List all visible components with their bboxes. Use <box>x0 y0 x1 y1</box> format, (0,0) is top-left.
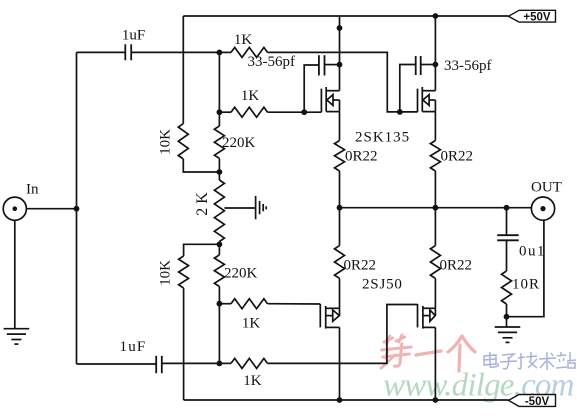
wire C4 right lead <box>421 64 436 66</box>
node B gate node upper <box>217 109 223 115</box>
node Q3 rail <box>337 397 343 403</box>
resistor R3 10K top <box>178 124 188 159</box>
connector J2 OUT <box>531 197 554 220</box>
wire 2K bottom to R4 <box>184 244 220 256</box>
svg-text:2SJ50: 2SJ50 <box>362 277 403 293</box>
svg-text:1K: 1K <box>243 373 262 389</box>
node M out right <box>504 205 510 211</box>
node A <box>217 50 223 56</box>
capacitor C5 0u1 <box>497 235 519 240</box>
connector J1 In <box>3 197 26 220</box>
wire node B down <box>218 112 220 126</box>
label 1K R8 <box>242 315 261 331</box>
resistor R11 0R22 <box>430 141 440 172</box>
resistor R2 1K second <box>219 107 267 117</box>
node N zobel gnd <box>504 314 510 320</box>
wire Q4 drain to rail <box>434 327 436 400</box>
svg-text:220K: 220K <box>222 135 256 151</box>
label 10K bottom <box>158 260 174 286</box>
svg-text:+50V: +50V <box>523 12 551 24</box>
wire 2K tap <box>224 207 255 209</box>
wire R10 to out rail <box>339 171 341 208</box>
svg-text:0u1: 0u1 <box>519 244 546 260</box>
resistor R12 0R22 lower <box>335 246 345 279</box>
svg-text:2K: 2K <box>194 188 211 216</box>
ground mid sideways <box>256 196 267 219</box>
wire R1 to Q2 gate <box>268 52 400 112</box>
svg-text:10K: 10K <box>158 260 174 286</box>
label 1K R9 <box>243 373 262 389</box>
node drain dot Q1 <box>337 25 343 31</box>
label In <box>26 182 39 198</box>
transistor Q3 2SJ50 <box>320 304 339 329</box>
node D 2K bottom <box>217 241 223 247</box>
node K out left <box>337 205 343 211</box>
node E gate node lower <box>217 301 223 307</box>
svg-text:10R: 10R <box>512 277 540 293</box>
wire R11 to out rail <box>434 171 436 208</box>
resistor R8 1K third <box>219 299 267 309</box>
node G Q1 gate <box>301 109 307 115</box>
power flag -50V <box>509 395 556 408</box>
svg-text:1uF: 1uF <box>122 28 145 44</box>
wire R8 to Q3 gate <box>268 303 321 305</box>
wire C5 to R14 <box>506 240 508 271</box>
label 0R22 R11 <box>441 148 474 164</box>
wire R9 to Q4 gate <box>268 305 418 364</box>
node H Q1 drain cap <box>337 62 343 68</box>
label 220K top <box>222 135 256 151</box>
label 1K R1 <box>234 32 253 48</box>
wire input column <box>76 52 78 364</box>
wire jack return <box>507 220 544 317</box>
wire R2 to Q1 gate node <box>268 111 305 113</box>
resistor R9 1K bottom <box>219 358 267 368</box>
label 1K R2 <box>241 88 260 104</box>
wire input to node <box>26 208 76 210</box>
wire rail to R-10K-top <box>182 16 184 124</box>
wire C3 left lead <box>304 65 319 112</box>
resistor R13 0R22 lower <box>430 246 440 279</box>
wire Q2 source down <box>434 112 436 141</box>
wire node E down <box>218 304 220 364</box>
label 220K bottom <box>224 266 258 282</box>
label 10K top <box>158 129 174 155</box>
resistor R5 220K top <box>214 126 224 158</box>
label 2K <box>194 188 211 216</box>
svg-text:33-56pf: 33-56pf <box>444 58 492 74</box>
svg-text:220K: 220K <box>224 266 258 282</box>
label 1uF bottom <box>120 339 147 355</box>
wire Q1 drain column <box>339 16 341 91</box>
resistor R10 0R22 <box>335 141 345 172</box>
svg-text:1K: 1K <box>242 315 261 331</box>
wire output rail <box>340 207 532 209</box>
wire input column to C2 <box>77 363 157 365</box>
label 0R22 R13 <box>440 258 473 274</box>
wire +50V rail <box>183 15 508 17</box>
svg-text:1K: 1K <box>234 32 253 48</box>
label 0R22 R12 <box>344 258 377 274</box>
node input junction <box>74 206 80 212</box>
wire out rail to R13 <box>434 208 436 246</box>
resistor R7 2K <box>214 172 224 244</box>
node Q4 rail <box>433 397 439 403</box>
wire Q3 drain to rail <box>339 327 341 400</box>
svg-text:-50V: -50V <box>525 396 550 408</box>
node Q2 rail <box>433 13 439 19</box>
wire -50V rail <box>184 399 509 401</box>
label 33-56pf C4 <box>444 58 492 74</box>
wire C1 to node A <box>131 51 219 53</box>
wire C2 to node F <box>162 362 220 364</box>
svg-text:In: In <box>26 182 39 198</box>
wire R13 to Q4 source <box>434 278 436 308</box>
resistor R4 10K bottom <box>179 256 189 288</box>
wire Q2 drain column <box>434 16 436 91</box>
wire C4 left lead <box>400 65 416 112</box>
label 33-56pf C3 <box>248 54 296 70</box>
svg-text:10K: 10K <box>158 129 174 155</box>
ground output <box>495 317 521 343</box>
wire out rail to R12 <box>339 208 341 246</box>
label OUT <box>531 179 562 195</box>
svg-text:0R22: 0R22 <box>344 258 377 274</box>
svg-text:0R22: 0R22 <box>345 148 378 164</box>
label 1uF top <box>122 28 145 44</box>
label 0R22 R10 <box>345 148 378 164</box>
wire to C1 <box>77 51 126 53</box>
watermark text <box>379 335 576 404</box>
wire Q2 gate lead <box>400 111 418 113</box>
svg-text:0R22: 0R22 <box>441 148 474 164</box>
node L out mid <box>433 205 439 211</box>
svg-text:33-56pf: 33-56pf <box>248 54 296 70</box>
node I Q2 gate <box>397 109 403 115</box>
svg-text:1uF: 1uF <box>120 339 147 355</box>
resistor R1 1K top <box>219 47 267 57</box>
node F lower cap node <box>217 361 223 367</box>
wire R12 to Q3 source <box>339 278 341 308</box>
wire R3 to 2K top <box>183 159 219 172</box>
wire R6 to node E <box>218 287 220 304</box>
svg-text:OUT: OUT <box>531 179 562 195</box>
wire Q1 gate lead <box>304 111 321 113</box>
ground input <box>4 329 30 344</box>
capacitor C1 1uF <box>125 44 131 60</box>
wire input ground lead <box>14 220 16 328</box>
capacitor C3 33-56pf <box>319 55 325 75</box>
wire C3 right lead <box>325 64 340 66</box>
wire out to C5 <box>506 208 508 236</box>
label 2SJ50 <box>362 277 403 293</box>
label 2SK135 <box>355 130 410 146</box>
transistor Q1 2SK135 <box>321 87 339 112</box>
wire R4 to -50V rail <box>183 288 185 400</box>
wire node D down <box>218 244 220 255</box>
resistor R14 10R <box>502 271 512 304</box>
node C 2K top <box>217 169 223 175</box>
label 10R <box>512 277 540 293</box>
node J Q2 drain cap <box>433 62 439 68</box>
svg-text:2SK135: 2SK135 <box>355 130 410 146</box>
svg-text:1K: 1K <box>241 88 260 104</box>
wire node A down <box>218 52 220 112</box>
capacitor C2 1uF bottom <box>156 356 162 373</box>
transistor Q2 2SK135 <box>418 87 436 112</box>
power flag +50V <box>509 10 556 23</box>
transistor Q4 2SJ50 <box>418 304 436 329</box>
wire Q1 source down <box>339 112 341 141</box>
svg-text:0R22: 0R22 <box>440 258 473 274</box>
label 0u1 <box>519 244 546 260</box>
wire R5 to 2K top <box>218 158 220 172</box>
capacitor C4 33-56pf <box>416 56 421 75</box>
resistor R6 220K bottom <box>214 255 224 287</box>
wire R14 to gnd node <box>506 304 508 317</box>
